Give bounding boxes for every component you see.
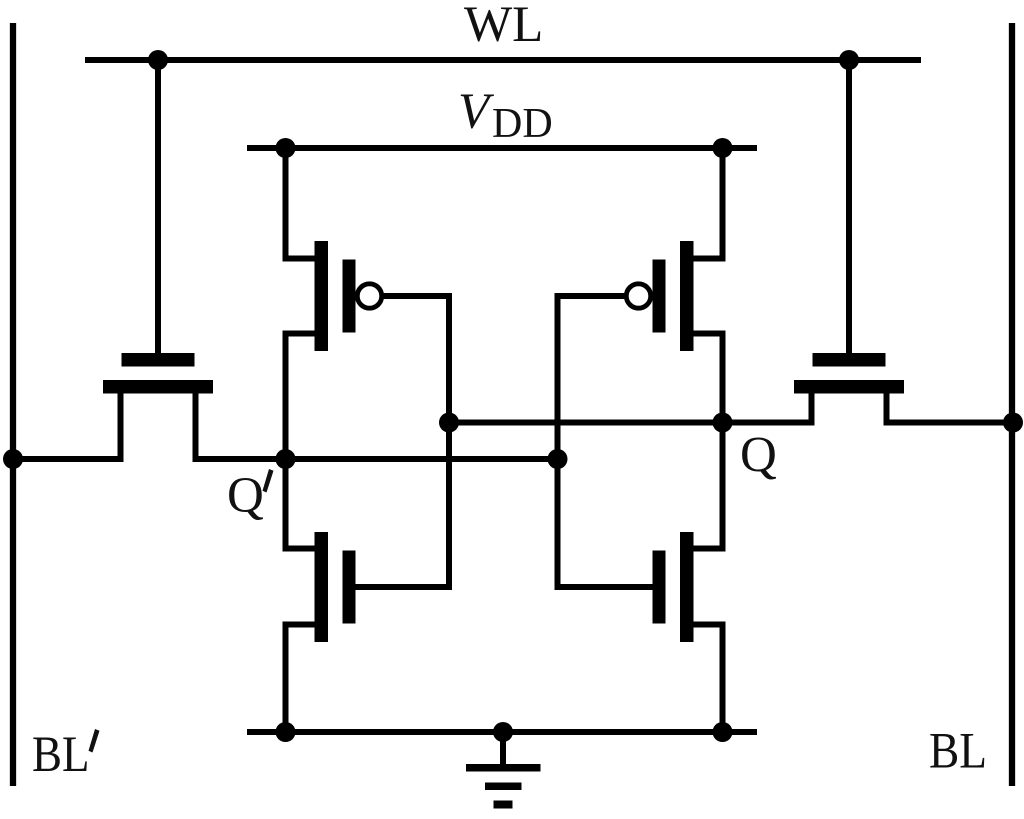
node junction dot VDD-right (713, 138, 733, 158)
node junction dot Q' to right gates (548, 449, 568, 469)
transistor M1 gate bar (343, 260, 356, 333)
wire bitline BL (right vertical) (1009, 23, 1015, 786)
node junction dot rail-ground (493, 722, 513, 742)
node junction dot BL'-access (3, 449, 23, 469)
transistor M4 channel bar (680, 532, 694, 642)
svg-text:Q: Q (740, 428, 777, 484)
svg-text:DD: DD (492, 101, 553, 147)
transistor M1 channel bar (315, 241, 329, 351)
transistor M6 channel bar (794, 380, 904, 394)
transistor M2 channel bar (315, 532, 329, 642)
transistor M1 gate bubble (357, 284, 381, 308)
transistor M3 right PMOS pull-up: source wire from VDD (694, 148, 723, 259)
wire ground rail (247, 729, 757, 735)
transistor M3 drain wire to node Q (694, 334, 723, 423)
wire cross-coupling: gates of M1/M2 to node Q (356, 296, 450, 587)
ground symbol (466, 732, 541, 809)
node junction dot Q to left gates (439, 413, 459, 433)
transistor M4 gate bar (653, 551, 666, 624)
transistor M3 channel bar (680, 241, 694, 351)
node Q junction dot (713, 413, 733, 433)
transistor M5 left access NMOS: gate wire from WL (155, 60, 161, 353)
transistor M4 right NMOS pull-down: drain wire from node Q (694, 423, 723, 549)
wire node Q horizontal (449, 420, 812, 426)
svg-text:WL: WL (464, 0, 543, 53)
transistor M1 left PMOS pull-up: source wire from VDD (286, 148, 315, 259)
transistor M5 drain lead + wire to node Q' (196, 394, 286, 460)
transistor M2 left NMOS pull-down: drain wire from node Q' (286, 459, 315, 549)
transistor M6 left lead + wire to node Q (723, 394, 812, 423)
transistor M3 gate bar (653, 260, 666, 333)
wire node Q' horizontal (286, 456, 558, 462)
node junction dot rail-left (276, 722, 296, 742)
svg-text:BL: BL (32, 727, 90, 783)
transistor M6 right access NMOS: gate wire from WL (846, 60, 852, 353)
transistor M6 right lead + wire to BL (887, 394, 1014, 423)
node junction dot WL-right gate (839, 50, 859, 70)
svg-text:Q: Q (227, 468, 264, 524)
transistor M4 source wire to ground rail (694, 625, 723, 733)
wire cross-coupling: gates of M3/M4 to node Q' (558, 296, 653, 587)
transistor M3 gate bubble (626, 284, 650, 308)
transistor M5 channel bar (103, 380, 213, 394)
transistor M5 source lead + wire to BL' (13, 394, 121, 460)
node Q' junction dot (276, 449, 296, 469)
node junction dot WL-left gate (148, 50, 168, 70)
wire word line WL (85, 57, 921, 63)
node junction dot BL-access (1003, 413, 1023, 433)
wire bitline BL' (left vertical) (10, 23, 16, 786)
transistor M2 gate bar (343, 551, 356, 624)
wire VDD rail (247, 145, 757, 151)
transistor M6 gate bar (813, 353, 886, 367)
transistor M1 drain wire to node Q' (286, 334, 315, 460)
transistor M5 gate bar (122, 353, 195, 367)
svg-text:BL: BL (929, 724, 987, 780)
node junction dot VDD-left (276, 138, 296, 158)
transistor M2 source wire to ground rail (286, 625, 315, 733)
node junction dot rail-right (713, 722, 733, 742)
